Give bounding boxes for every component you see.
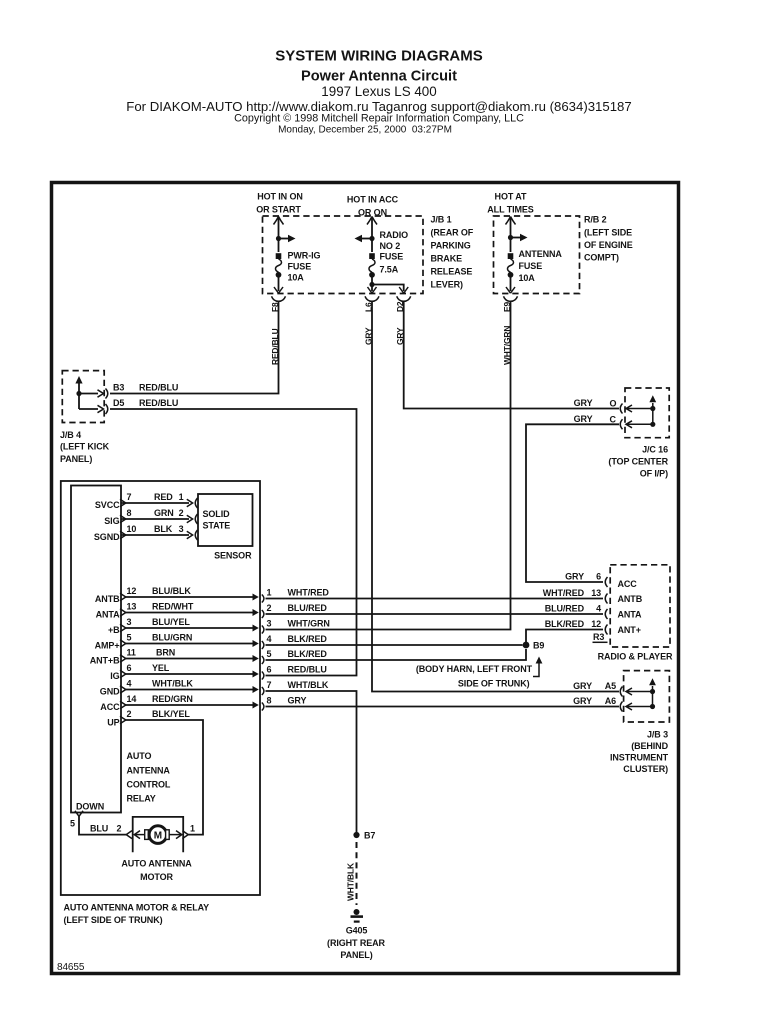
motor M1 frame: [133, 817, 184, 852]
svg-text:BLU: BLU: [90, 824, 108, 834]
ground G405 symbol: [351, 909, 364, 922]
svg-text:RED/BLU: RED/BLU: [139, 383, 178, 393]
svg-text:SENSOR: SENSOR: [214, 551, 252, 561]
label GRY A5: [573, 681, 616, 691]
svg-text:J/B 3: J/B 3: [647, 730, 668, 740]
label HOT IN ACC OR ON: [347, 195, 399, 218]
wire row 4 WHT/BLK to 7 WHT/BLK (to ground G405): [120, 686, 126, 693]
label AUTO ANTENNA MOTOR: [121, 859, 192, 883]
svg-text:FUSE: FUSE: [380, 252, 404, 262]
svg-text:SOLID: SOLID: [203, 509, 231, 519]
J/C16 internal arrow to pin C: [626, 421, 653, 428]
arrow down at box exit E9: [506, 287, 515, 293]
svg-text:RED/BLU: RED/BLU: [139, 398, 178, 408]
pin D5 arrow: [98, 405, 104, 412]
svg-text:7: 7: [267, 680, 272, 690]
wire row 11 BRN to 5 BLK/RED (to B9): [120, 655, 126, 662]
wire hot feed to RADIO NO 2 fuse: [371, 218, 373, 252]
svg-text:CLUSTER): CLUSTER): [623, 764, 668, 774]
connector cavity F8: [272, 296, 286, 301]
svg-text:7: 7: [127, 492, 132, 502]
svg-text:HOT IN ACC: HOT IN ACC: [347, 195, 399, 205]
branch arrow left: [362, 238, 372, 240]
svg-text:AUTO ANTENNA MOTOR & RELAY: AUTO ANTENNA MOTOR & RELAY: [64, 903, 210, 913]
splice node B9: [523, 642, 530, 649]
wire GRY from D2 down to J/C16 pin O: [404, 302, 619, 409]
connector bracket radio ANTA: [605, 609, 607, 619]
label GRY 6 at radio ACC: [565, 572, 601, 582]
wire fuse to box exit L6 with branch to D2: [372, 276, 404, 291]
svg-text:+B: +B: [108, 625, 120, 635]
svg-text:DOWN: DOWN: [76, 802, 104, 812]
svg-text:BRAKE: BRAKE: [431, 254, 463, 264]
svg-text:FUSE: FUSE: [519, 261, 543, 271]
wire pin 8 GRN to sensor pin 2: [121, 518, 189, 520]
svg-text:NO 2: NO 2: [380, 241, 401, 251]
svg-text:SVCC: SVCC: [95, 500, 120, 510]
svg-text:HOT IN ON: HOT IN ON: [257, 192, 303, 202]
label AUTO ANTENNA MOTOR & RELAY (LEFT SIDE OF TRUNK): [64, 903, 210, 926]
svg-text:6: 6: [267, 665, 272, 675]
svg-text:13: 13: [591, 588, 601, 598]
wire hot feed to PWR-IG fuse: [278, 218, 280, 252]
junction block J/B 1 (dashed box): [263, 216, 424, 294]
svg-text:BLU/RED: BLU/RED: [545, 604, 585, 614]
label SOLID STATE: [203, 509, 231, 531]
wire row 13 RED/WHT to 2 BLU/RED (radio ANTA): [120, 609, 126, 616]
label J/C 16 (TOP CENTER OF I/P): [608, 445, 668, 479]
connector bracket radio ANT+: [605, 625, 607, 635]
svg-text:RED/GRN: RED/GRN: [152, 694, 193, 704]
svg-text:WHT/BLK: WHT/BLK: [288, 680, 329, 690]
wire fuse to box exit: [278, 276, 280, 291]
junction block J/B 4 (dashed box): [62, 371, 104, 423]
sensor U2 SOLID STATE (box): [198, 494, 253, 546]
svg-text:BLU/GRN: BLU/GRN: [152, 633, 192, 643]
arrow down out of relay bottom: [75, 811, 83, 817]
wire relay pin 5 DOWN to motor pin 2 (BLU): [79, 817, 127, 835]
wire row 12 BLU/BLK to 1 WHT/RED (radio ANTB): [120, 593, 126, 600]
label ANTB ANTA +B AMP+ ANT+B IG GND ACC UP: [90, 594, 120, 728]
svg-text:(LEFT SIDE: (LEFT SIDE: [584, 228, 632, 238]
arrow up into box edge: [274, 217, 284, 225]
junction connector J/C 16 (dashed box): [625, 388, 669, 438]
svg-text:5: 5: [70, 819, 75, 829]
connector cavity L6: [365, 296, 379, 301]
svg-text:FUSE: FUSE: [288, 262, 312, 272]
wire row 5 BLU/GRN to 4 BLK/RED (to B9): [120, 640, 126, 647]
svg-text:3: 3: [127, 617, 132, 627]
label AUTO ANTENNA CONTROL RELAY: [127, 751, 171, 804]
wire fuse to box exit E9: [510, 276, 512, 291]
page border frame: [52, 183, 679, 974]
J/B3 internal bus with arrow up: [652, 686, 654, 707]
svg-text:84655: 84655: [57, 962, 85, 973]
label PWR-IG FUSE 10A: [288, 251, 321, 283]
svg-text:OR ON: OR ON: [358, 208, 387, 218]
svg-text:PARKING: PARKING: [431, 241, 471, 251]
svg-text:C: C: [610, 414, 617, 424]
svg-text:SIDE OF TRUNK): SIDE OF TRUNK): [458, 679, 530, 689]
svg-text:R3: R3: [593, 632, 604, 642]
svg-text:WHT/BLK: WHT/BLK: [152, 679, 193, 689]
connector bracket pin A6: [620, 702, 622, 712]
svg-text:ACC: ACC: [100, 702, 120, 712]
relay U1 AUTO ANTENNA CONTROL RELAY (inner box): [71, 486, 121, 813]
svg-text:O: O: [610, 399, 617, 409]
label G405 (RIGHT REAR PANEL): [327, 926, 385, 961]
svg-text:WHT/GRN: WHT/GRN: [288, 619, 330, 629]
svg-text:D5: D5: [113, 398, 124, 408]
arrow down at box exit L6: [368, 287, 377, 293]
wire WHT/GRN from E9 down to relay pin 3 row: [266, 302, 511, 630]
label 7 RED 1: [127, 492, 184, 502]
pin B3 connector bracket: [106, 389, 108, 399]
svg-text:RELAY: RELAY: [127, 794, 156, 804]
node dot pin A5: [650, 689, 655, 694]
svg-text:GRY: GRY: [573, 696, 592, 706]
svg-text:4: 4: [267, 634, 272, 644]
label HOT AT ALL TIMES: [487, 192, 534, 215]
svg-text:3: 3: [267, 619, 272, 629]
svg-text:PANEL): PANEL): [60, 454, 92, 464]
label BLU/RED 4 at radio ANTA: [545, 604, 601, 614]
label 5 BLU 2: [70, 819, 195, 834]
node dot pin C: [650, 422, 655, 427]
svg-text:CONTROL: CONTROL: [127, 780, 171, 790]
svg-text:BLU/YEL: BLU/YEL: [152, 617, 190, 627]
label 10 BLK 3: [127, 524, 184, 534]
svg-text:BLK: BLK: [154, 524, 173, 534]
svg-text:UP: UP: [107, 718, 119, 728]
svg-text:(REAR OF: (REAR OF: [431, 228, 474, 238]
svg-text:1: 1: [179, 492, 184, 502]
pin B3 arrow: [98, 390, 104, 397]
pin D5 connector bracket: [106, 404, 108, 414]
svg-text:RED: RED: [154, 492, 173, 502]
svg-text:M: M: [154, 830, 162, 841]
motor brush right: [166, 830, 170, 840]
node branch dot: [276, 236, 281, 241]
svg-text:1: 1: [190, 824, 195, 834]
label SVCC SIG SGND: [94, 500, 120, 542]
label D5 RED/BLU: [113, 398, 178, 408]
svg-text:SIG: SIG: [104, 516, 119, 526]
connector bracket radio ACC: [605, 577, 607, 587]
J/B4 internal bus with arrow up: [78, 381, 80, 409]
svg-text:(LEFT KICK: (LEFT KICK: [60, 442, 110, 452]
splice node B7: [353, 832, 359, 838]
svg-text:BRN: BRN: [156, 648, 175, 658]
svg-text:2: 2: [179, 508, 184, 518]
svg-text:MOTOR: MOTOR: [140, 872, 173, 882]
node dot branch to D2: [369, 282, 374, 287]
svg-text:AUTO ANTENNA: AUTO ANTENNA: [121, 859, 192, 869]
svg-text:ANT+: ANT+: [618, 625, 641, 635]
svg-text:OF ENGINE: OF ENGINE: [584, 240, 633, 250]
svg-text:4: 4: [596, 604, 601, 614]
svg-text:GRY: GRY: [574, 398, 593, 408]
motor left connector arrows: [126, 831, 140, 839]
svg-text:5: 5: [267, 649, 272, 659]
connector cavity E9: [504, 296, 518, 301]
svg-text:PWR-IG: PWR-IG: [288, 251, 321, 261]
pin B3 exit wire: [79, 393, 98, 395]
pointer arrow from body harness note to B9: [533, 662, 539, 677]
svg-text:AMP+: AMP+: [95, 641, 120, 651]
label HOT IN ON OR START: [256, 192, 303, 215]
arrow up into box edge: [506, 217, 516, 225]
wire row 3 BLU/YEL to 3 WHT/GRN: [120, 624, 126, 631]
svg-text:OF I/P): OF I/P): [640, 469, 668, 479]
wire pin 2 BLK/YEL from relay UP to motor pin 1: [126, 720, 204, 835]
svg-text:WHT/RED: WHT/RED: [288, 588, 330, 598]
svg-text:1: 1: [267, 588, 272, 598]
label GRY A6: [573, 696, 616, 706]
wire BLK/RED from B9 up to radio ANT+: [526, 630, 603, 649]
svg-text:13: 13: [127, 602, 137, 612]
title header block: [126, 48, 631, 136]
svg-text:J/C 16: J/C 16: [642, 445, 668, 455]
label ACC ANTB ANTA ANT+ inside radio: [618, 579, 643, 635]
svg-text:WHT/RED: WHT/RED: [543, 588, 585, 598]
svg-text:ANTB: ANTB: [95, 594, 120, 604]
svg-text:3: 3: [179, 524, 184, 534]
svg-text:12: 12: [591, 619, 601, 629]
svg-text:ANT+B: ANT+B: [90, 656, 120, 666]
label GRY C: [574, 414, 617, 425]
svg-text:AUTO: AUTO: [127, 751, 152, 761]
svg-text:STATE: STATE: [203, 521, 231, 531]
svg-text:(RIGHT REAR: (RIGHT REAR: [327, 938, 385, 948]
wire pin 10 BLK to sensor pin 3: [121, 534, 189, 536]
svg-text:Monday, December 25, 2000 03:: Monday, December 25, 2000 03:27PM: [278, 124, 452, 135]
wire row 6 YEL to 6 RED/BLU (from J/B4 D5): [120, 670, 126, 677]
svg-text:ANTA: ANTA: [96, 610, 121, 620]
svg-text:7.5A: 7.5A: [380, 265, 399, 275]
label J/B 3 (BEHIND INSTRUMENT CLUSTER): [610, 730, 669, 775]
svg-text:14: 14: [127, 694, 137, 704]
label 2 BLK/YEL: [127, 709, 191, 719]
wire RED/BLU from D5 down to relay pin 6 row: [110, 409, 357, 676]
svg-text:GRY: GRY: [573, 681, 592, 691]
fuse RADIO NO 2 7.5A: [369, 253, 375, 277]
wire pin 7 RED to sensor pin 1: [121, 502, 189, 504]
pin D5 exit wire: [79, 408, 98, 410]
connector cavity D2: [397, 296, 411, 301]
svg-text:GRY: GRY: [565, 572, 584, 582]
svg-text:6: 6: [127, 663, 132, 673]
svg-text:BLK/RED: BLK/RED: [288, 649, 328, 659]
svg-text:BLU/RED: BLU/RED: [288, 603, 328, 613]
arrow up into box edge: [367, 217, 377, 225]
svg-text:LEVER): LEVER): [431, 280, 464, 290]
svg-text:R/B 2: R/B 2: [584, 215, 607, 225]
svg-text:B3: B3: [113, 383, 124, 393]
svg-text:10A: 10A: [519, 273, 536, 283]
wire hot feed to ANTENNA fuse: [510, 218, 512, 252]
svg-text:YEL: YEL: [152, 663, 170, 673]
J/B3 internal arrow to pin A6: [626, 703, 653, 710]
label R/B 2: [584, 215, 633, 263]
connector bracket pin O: [620, 404, 622, 414]
svg-text:SYSTEM WIRING DIAGRAMS: SYSTEM WIRING DIAGRAMS: [275, 48, 483, 65]
label BLK/RED 12 at radio ANT+: [545, 619, 601, 629]
label WHT/RED 13 at radio ANTB: [543, 588, 601, 598]
svg-text:ANTA: ANTA: [618, 610, 643, 620]
wire RED/BLU from F8 down to B3: [110, 302, 279, 394]
wire row 14 RED/GRN to 8 GRY (to J/B3 A6): [120, 701, 126, 708]
svg-text:B7: B7: [364, 831, 375, 841]
label GRY O: [574, 398, 617, 409]
svg-text:10A: 10A: [288, 273, 305, 283]
node dot pin A6: [650, 704, 655, 709]
node branch dot: [369, 236, 374, 241]
label 8 GRN 2: [127, 508, 184, 518]
svg-text:1997 Lexus LS 400: 1997 Lexus LS 400: [321, 84, 436, 99]
motor internal wire left: [134, 834, 147, 836]
svg-text:INSTRUMENT: INSTRUMENT: [610, 753, 669, 763]
arrow down at box exit F8: [274, 287, 283, 293]
svg-text:(TOP CENTER: (TOP CENTER: [608, 457, 668, 467]
junction block J/B 3 (dashed box): [624, 671, 670, 722]
label J/B 1: [431, 215, 474, 290]
svg-text:GRY: GRY: [288, 696, 307, 706]
motor internal wire right: [169, 834, 182, 836]
motor right connector arrows: [176, 831, 188, 839]
svg-text:RADIO: RADIO: [380, 230, 409, 240]
svg-text:COMPT): COMPT): [584, 253, 619, 263]
J/B3 internal arrow to pin A5: [626, 688, 653, 695]
node branch dot: [508, 235, 513, 240]
svg-text:ANTENNA: ANTENNA: [519, 249, 563, 259]
branch arrow right: [279, 238, 289, 240]
connector bracket radio ANTB: [605, 594, 607, 604]
svg-text:2: 2: [127, 709, 132, 719]
svg-text:PANEL): PANEL): [340, 950, 372, 960]
label (BODY HARN, LEFT FRONT SIDE OF TRUNK): [416, 664, 533, 689]
svg-text:J/B 4: J/B 4: [60, 430, 81, 440]
svg-text:(BODY HARN, LEFT FRONT: (BODY HARN, LEFT FRONT: [416, 664, 533, 674]
svg-text:Power Antenna Circuit: Power Antenna Circuit: [301, 69, 457, 85]
connector bracket pin C: [620, 419, 622, 429]
connector bracket pin A5: [620, 687, 622, 697]
label ANTENNA FUSE 10A: [519, 249, 563, 283]
svg-text:BLU/BLK: BLU/BLK: [152, 586, 191, 596]
svg-text:GND: GND: [100, 687, 120, 697]
svg-text:(LEFT SIDE OF TRUNK): (LEFT SIDE OF TRUNK): [64, 915, 163, 925]
node dot at B3: [76, 391, 81, 396]
relay block R/B 2 (dashed box): [494, 216, 580, 294]
svg-text:2: 2: [117, 824, 122, 834]
motor M1 circle: [149, 826, 167, 844]
dashed wire WHT/BLK from B7 to ground: [356, 842, 358, 905]
svg-text:OR START: OR START: [256, 205, 301, 215]
svg-text:HOT AT: HOT AT: [495, 192, 527, 202]
label RADIO NO 2 FUSE 7.5A: [380, 230, 409, 275]
branch arrow right: [511, 237, 521, 239]
svg-text:ALL TIMES: ALL TIMES: [487, 205, 534, 215]
svg-text:ANTENNA: ANTENNA: [127, 766, 171, 776]
svg-text:BLK/RED: BLK/RED: [545, 619, 585, 629]
node dot pin O: [650, 406, 655, 411]
svg-text:5: 5: [127, 633, 132, 643]
svg-text:SGND: SGND: [94, 532, 120, 542]
label B3 RED/BLU: [113, 383, 178, 393]
svg-text:4: 4: [127, 679, 132, 689]
fuse PWR-IG 10A: [276, 253, 282, 277]
svg-text:IG: IG: [110, 671, 119, 681]
svg-text:10: 10: [127, 524, 137, 534]
fuse ANTENNA 10A: [508, 253, 514, 277]
wire GRY from J/C16 pin C to radio ACC: [526, 424, 619, 582]
svg-text:GRY: GRY: [574, 414, 593, 424]
svg-text:GRN: GRN: [154, 508, 174, 518]
label J/B 4 (LEFT KICK PANEL): [60, 430, 110, 464]
svg-text:8: 8: [267, 696, 272, 706]
svg-text:B9: B9: [533, 641, 544, 651]
arrow down at box exit D2: [399, 287, 408, 293]
svg-text:11: 11: [127, 648, 136, 658]
svg-text:8: 8: [127, 508, 132, 518]
svg-text:12: 12: [127, 586, 137, 596]
svg-text:ANTB: ANTB: [618, 594, 643, 604]
svg-text:G405: G405: [346, 926, 368, 936]
svg-text:RELEASE: RELEASE: [431, 267, 473, 277]
svg-text:RADIO & PLAYER: RADIO & PLAYER: [598, 652, 673, 662]
motor brush left: [145, 830, 149, 840]
svg-text:RED/BLU: RED/BLU: [288, 665, 327, 675]
J/C16 internal arrow to pin O: [626, 405, 653, 412]
wire GRY from L6 down to J/B3 pin A5: [372, 302, 619, 692]
svg-text:6: 6: [596, 572, 601, 582]
component box AUTO ANTENNA MOTOR & RELAY (solid outer box): [61, 481, 260, 895]
svg-text:BLK/RED: BLK/RED: [288, 634, 328, 644]
svg-text:A6: A6: [605, 696, 616, 706]
svg-text:RED/WHT: RED/WHT: [152, 602, 194, 612]
svg-text:A5: A5: [605, 681, 616, 691]
svg-text:2: 2: [267, 603, 272, 613]
svg-text:(BEHIND: (BEHIND: [631, 741, 668, 751]
svg-text:Copyright © 1998 Mitchell Repa: Copyright © 1998 Mitchell Repair Informa…: [234, 112, 524, 124]
svg-text:ACC: ACC: [618, 579, 638, 589]
svg-text:J/B 1: J/B 1: [431, 215, 452, 225]
radio R3 RADIO & PLAYER (dashed box): [610, 565, 670, 647]
J/C16 internal bus with arrow up: [652, 403, 654, 424]
svg-text:WHT/BLK: WHT/BLK: [346, 863, 356, 901]
svg-text:BLK/YEL: BLK/YEL: [152, 709, 190, 719]
